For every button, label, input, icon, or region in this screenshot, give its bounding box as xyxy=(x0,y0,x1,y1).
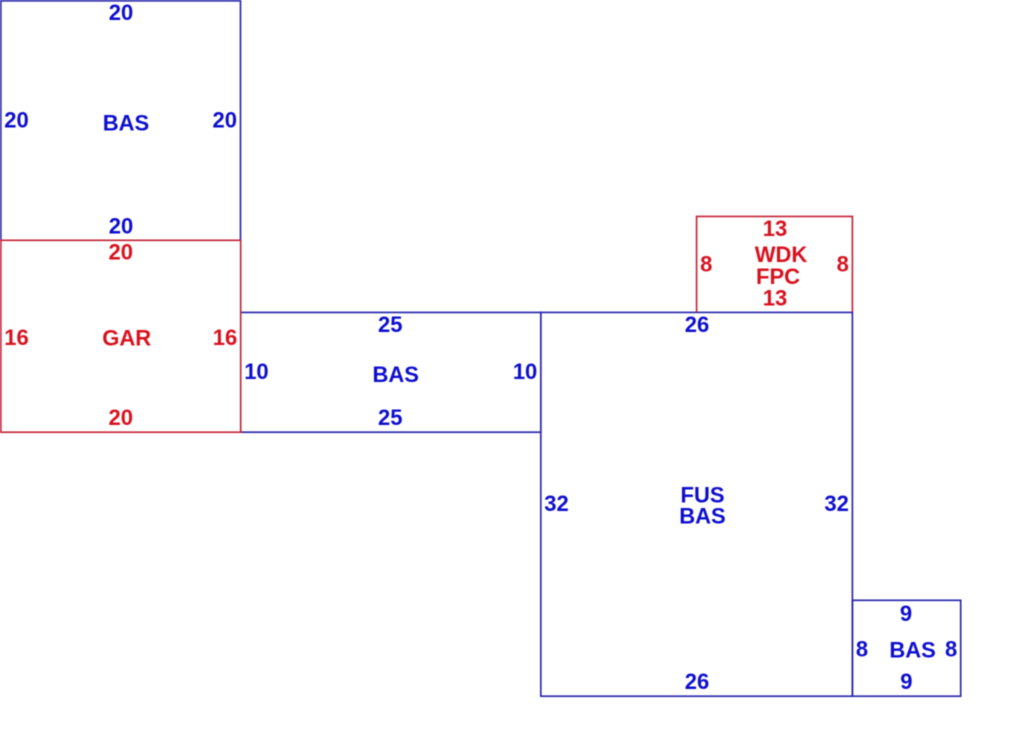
svg-text:10: 10 xyxy=(513,359,537,384)
svg-text:25: 25 xyxy=(378,312,402,337)
svg-text:25: 25 xyxy=(378,405,402,430)
svg-text:BAS: BAS xyxy=(372,362,418,387)
svg-text:20: 20 xyxy=(109,0,133,25)
svg-text:20: 20 xyxy=(108,405,132,430)
svg-text:BAS: BAS xyxy=(679,503,725,528)
svg-text:20: 20 xyxy=(109,213,133,238)
svg-text:BAS: BAS xyxy=(889,638,935,663)
svg-text:13: 13 xyxy=(763,216,787,241)
svg-text:GAR: GAR xyxy=(102,326,151,351)
svg-text:26: 26 xyxy=(685,669,709,694)
svg-text:26: 26 xyxy=(685,312,709,337)
svg-text:16: 16 xyxy=(4,325,28,350)
svg-text:9: 9 xyxy=(900,601,912,626)
svg-text:8: 8 xyxy=(856,636,868,661)
svg-text:8: 8 xyxy=(945,636,957,661)
svg-text:10: 10 xyxy=(244,359,268,384)
svg-text:16: 16 xyxy=(213,325,237,350)
svg-text:8: 8 xyxy=(837,251,849,276)
svg-text:9: 9 xyxy=(900,669,912,694)
svg-text:20: 20 xyxy=(213,107,237,132)
svg-text:13: 13 xyxy=(763,285,787,310)
svg-text:8: 8 xyxy=(700,251,712,276)
svg-text:20: 20 xyxy=(108,240,132,265)
svg-text:32: 32 xyxy=(824,491,848,516)
svg-text:BAS: BAS xyxy=(103,111,149,136)
svg-text:32: 32 xyxy=(544,491,568,516)
svg-text:20: 20 xyxy=(4,107,28,132)
